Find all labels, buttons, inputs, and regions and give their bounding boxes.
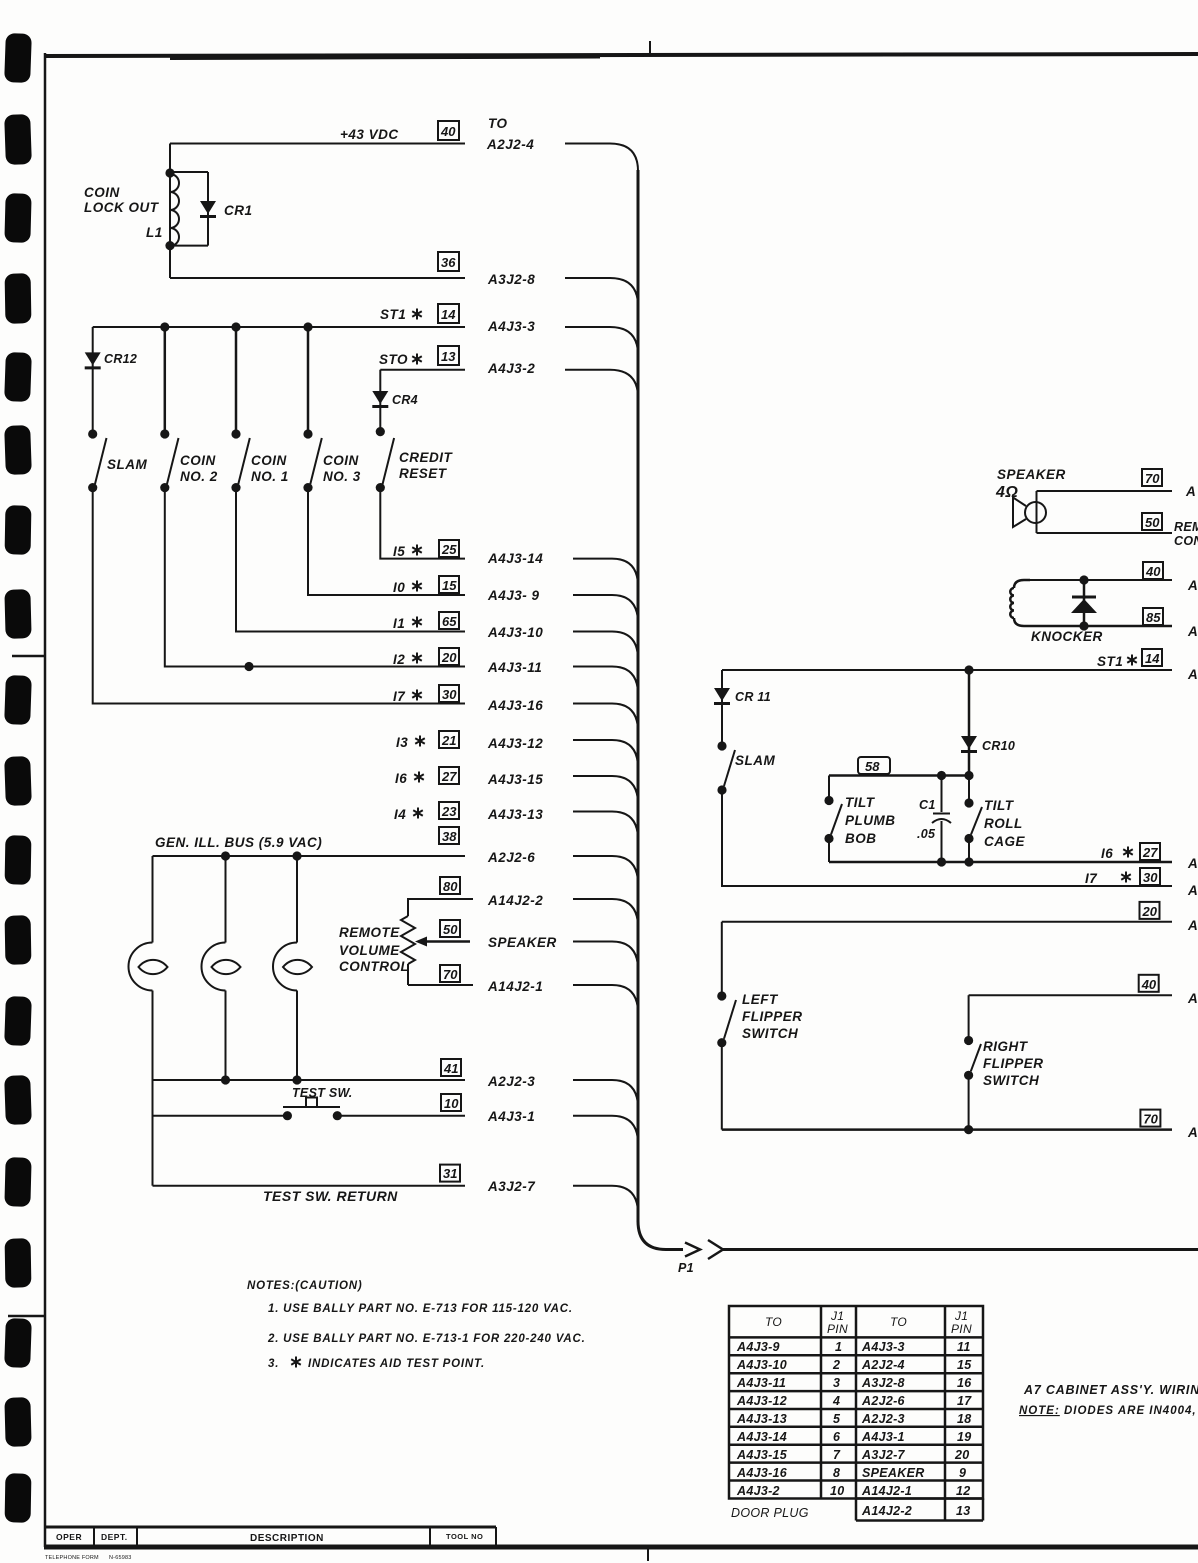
switch COIN NO.1 <box>231 429 288 492</box>
svg-text:A2J2-3: A2J2-3 <box>487 1074 535 1089</box>
svg-text:14: 14 <box>441 307 456 322</box>
svg-text:A4J3-14: A4J3-14 <box>487 551 543 566</box>
svg-text:4Ω: 4Ω <box>995 484 1018 501</box>
wire I4 to A4J3-13 <box>573 812 638 840</box>
svg-text:C1: C1 <box>919 798 936 812</box>
svg-text:A: A <box>1187 1125 1198 1140</box>
svg-text:NOTES:(CAUTION): NOTES:(CAUTION) <box>247 1280 363 1292</box>
svg-text:15: 15 <box>957 1358 972 1372</box>
svg-text:CREDIT: CREDIT <box>399 450 454 465</box>
svg-text:L1: L1 <box>146 225 163 240</box>
svg-text:19: 19 <box>957 1430 972 1444</box>
wire ST1 bus to A4J3-3 <box>93 327 638 355</box>
diode CR4 <box>379 370 381 432</box>
svg-text:20: 20 <box>954 1448 970 1462</box>
svg-text:A: A <box>1185 484 1196 499</box>
svg-text:NO. 1: NO. 1 <box>251 469 289 484</box>
svg-text:SPEAKER: SPEAKER <box>862 1466 925 1480</box>
lamp 3 <box>296 856 298 1080</box>
potentiometer remote volume control <box>401 916 415 985</box>
svg-text:23: 23 <box>441 804 457 819</box>
diode CR10 <box>968 670 971 776</box>
svg-text:A14J2-1: A14J2-1 <box>487 979 543 994</box>
svg-text:41: 41 <box>443 1061 458 1076</box>
svg-text:50: 50 <box>443 922 458 937</box>
svg-text:14: 14 <box>1145 651 1160 666</box>
svg-text:STO: STO <box>379 352 408 367</box>
svg-text:A3J2-7: A3J2-7 <box>861 1448 906 1462</box>
svg-text:BOB: BOB <box>845 831 877 846</box>
svg-text:I0: I0 <box>393 580 405 595</box>
svg-text:RESET: RESET <box>399 466 448 481</box>
svg-text:40: 40 <box>1145 564 1161 579</box>
svg-text:7: 7 <box>833 1448 841 1462</box>
svg-text:A4J3-15: A4J3-15 <box>736 1448 788 1462</box>
svg-text:70: 70 <box>1145 471 1160 486</box>
diode CR12 <box>92 327 94 434</box>
svg-text:J1: J1 <box>830 1309 844 1323</box>
svg-text:18: 18 <box>957 1412 972 1426</box>
svg-text:36: 36 <box>441 255 456 270</box>
wire TEST SW. RETURN to A3J2-7 <box>153 1186 639 1214</box>
svg-text:RIGHT: RIGHT <box>983 1039 1029 1054</box>
svg-text:A2J2-6: A2J2-6 <box>487 850 535 865</box>
wire STO to A4J3-2 <box>380 370 638 398</box>
wire tilt bottom bus I6 (27) A4J3-15 <box>829 861 1172 864</box>
svg-text:38: 38 <box>442 829 457 844</box>
svg-text:25: 25 <box>441 542 457 557</box>
table door plug pin-out <box>729 1306 983 1521</box>
svg-text:DESCRIPTION: DESCRIPTION <box>250 1533 324 1544</box>
svg-text:A2J2-4: A2J2-4 <box>861 1358 905 1372</box>
svg-text:TELEPHONE FORM: TELEPHONE FORM <box>45 1555 99 1561</box>
svg-text:A4J3-2: A4J3-2 <box>487 361 535 376</box>
svg-text:A4J3-16: A4J3-16 <box>736 1466 788 1480</box>
svg-text:A2J2-3: A2J2-3 <box>861 1412 905 1426</box>
svg-text:TEST SW.: TEST SW. <box>292 1086 353 1100</box>
svg-text:A7 CABINET ASS'Y. WIRING: A7 CABINET ASS'Y. WIRING <box>1023 1383 1198 1397</box>
wire I6 to A4J3-15 <box>573 776 638 804</box>
svg-text:3.: 3. <box>268 1358 279 1370</box>
svg-text:SWITCH: SWITCH <box>983 1073 1039 1088</box>
svg-text:A4J3-3: A4J3-3 <box>487 319 535 334</box>
wire I0 to A4J3-9 <box>308 488 638 623</box>
wire bundle to P1 <box>638 170 1198 1259</box>
wire flipper top (20) <box>722 921 1172 923</box>
svg-text:12: 12 <box>956 1484 971 1498</box>
svg-text:NO. 2: NO. 2 <box>180 469 218 484</box>
svg-text:A14J2-2: A14J2-2 <box>487 893 543 908</box>
svg-text:PIN: PIN <box>827 1322 848 1336</box>
svg-text:10: 10 <box>830 1484 845 1498</box>
svg-text:A: A <box>1187 918 1198 933</box>
svg-text:TOOL NO: TOOL NO <box>446 1532 483 1541</box>
svg-text:CR12: CR12 <box>104 352 137 366</box>
svg-text:40: 40 <box>440 124 456 139</box>
wire slam to I7 (30) A4J3-16 <box>722 790 1172 886</box>
svg-text:16: 16 <box>957 1376 972 1390</box>
svg-text:A3J2-7: A3J2-7 <box>487 1179 536 1194</box>
svg-text:A: A <box>1187 883 1198 898</box>
svg-text:SPEAKER: SPEAKER <box>488 935 557 950</box>
wire wiper to SPEAKER <box>415 937 638 970</box>
svg-text:A4J3-9: A4J3-9 <box>736 1340 780 1354</box>
svg-text:ST1: ST1 <box>1097 654 1123 669</box>
svg-text:DEPT.: DEPT. <box>101 1532 128 1542</box>
svg-text:A4J3-13: A4J3-13 <box>736 1412 787 1426</box>
svg-text:6: 6 <box>833 1430 841 1444</box>
lamp 2 <box>225 856 227 1080</box>
svg-text:A4J3- 9: A4J3- 9 <box>487 588 540 603</box>
switch COIN NO.2 <box>160 429 218 492</box>
switch SLAM (cabinet) <box>717 741 775 794</box>
svg-text:CR4: CR4 <box>392 393 418 407</box>
svg-text:LOCK OUT: LOCK OUT <box>84 200 160 215</box>
svg-text:2. USE BALLY PART NO. E-713-1: 2. USE BALLY PART NO. E-713-1 FOR 220-24… <box>267 1333 586 1345</box>
svg-text:I3: I3 <box>396 735 408 750</box>
svg-text:FLIPPER: FLIPPER <box>742 1009 803 1024</box>
svg-text:10: 10 <box>444 1096 459 1111</box>
wire I5 to A4J3-14 <box>380 488 638 587</box>
test switch TEST SW. to A4J3-1 <box>153 1098 639 1144</box>
wire speaker bottom (50) <box>1037 532 1173 534</box>
svg-text:70: 70 <box>443 967 458 982</box>
svg-text:SLAM: SLAM <box>735 753 776 768</box>
wire ST1 (14) right <box>722 669 1172 671</box>
svg-text:N-65983: N-65983 <box>109 1555 132 1561</box>
svg-text:20: 20 <box>1142 904 1158 919</box>
svg-text:I1: I1 <box>393 616 405 631</box>
wire GEN ILL BUS to A2J2-6 <box>153 856 639 884</box>
svg-text:13: 13 <box>441 349 456 364</box>
svg-text:2: 2 <box>832 1358 840 1372</box>
svg-text:GEN. ILL. BUS (5.9 VAC): GEN. ILL. BUS (5.9 VAC) <box>155 835 322 850</box>
svg-text:1. USE BALLY PART NO. E-713 FO: 1. USE BALLY PART NO. E-713 FOR 115-120 … <box>268 1303 573 1315</box>
switch tilt plumb bob <box>824 776 895 863</box>
svg-text:A3J2-8: A3J2-8 <box>487 272 535 287</box>
svg-text:3: 3 <box>833 1376 840 1390</box>
wire I7 to A4J3-16 <box>93 488 638 732</box>
svg-text:A4J3-10: A4J3-10 <box>736 1358 787 1372</box>
svg-text:4: 4 <box>832 1394 840 1408</box>
svg-text:65: 65 <box>442 614 457 629</box>
svg-text:CAGE: CAGE <box>984 834 1025 849</box>
svg-text:A4J3-11: A4J3-11 <box>487 660 542 675</box>
wire lamp return to A2J2-3 <box>153 1080 639 1108</box>
svg-text:TO: TO <box>890 1315 907 1329</box>
switch COIN NO.3 <box>303 429 360 492</box>
svg-text:TO: TO <box>488 116 508 131</box>
speaker 4 ohm <box>1013 491 1046 533</box>
svg-text:A4J3-1: A4J3-1 <box>861 1430 905 1444</box>
diode knocker (points up) <box>1083 580 1086 626</box>
wire I1 to A4J3-10 <box>236 488 638 660</box>
svg-text:PIN: PIN <box>951 1322 972 1336</box>
svg-text:CR 11: CR 11 <box>735 690 771 704</box>
wire to A14J2-1 <box>408 985 638 1013</box>
svg-text:85: 85 <box>1146 610 1161 625</box>
wire flipper bottom (70) <box>722 1128 1172 1131</box>
svg-text:INDICATES AID TEST POINT.: INDICATES AID TEST POINT. <box>308 1358 485 1370</box>
coil L1 coin lockout <box>170 172 179 246</box>
wire I3 to A4J3-12 <box>573 740 638 768</box>
switch right flipper <box>964 995 1044 1129</box>
wire left riser <box>152 1080 154 1186</box>
svg-text:A3J2-8: A3J2-8 <box>861 1376 905 1390</box>
switch CREDIT RESET <box>376 427 454 492</box>
wire +43 VDC to A2J2-4 <box>170 144 638 173</box>
svg-text:.05: .05 <box>917 827 936 841</box>
svg-text:SLAM: SLAM <box>107 457 148 472</box>
svg-text:CON: CON <box>1174 534 1198 548</box>
svg-text:20: 20 <box>441 650 457 665</box>
svg-text:I2: I2 <box>393 652 405 667</box>
svg-text:A4J3-15: A4J3-15 <box>487 772 543 787</box>
wire knocker top (40) <box>1030 579 1172 581</box>
diode CR1 <box>170 172 208 246</box>
svg-text:COIN: COIN <box>323 453 359 468</box>
svg-text:LEFT: LEFT <box>742 992 779 1007</box>
svg-text:31: 31 <box>443 1166 457 1181</box>
svg-text:COIN: COIN <box>180 453 216 468</box>
svg-text:A4J3-2: A4J3-2 <box>736 1484 780 1498</box>
svg-text:P1: P1 <box>678 1261 694 1275</box>
coil knocker <box>1010 580 1030 626</box>
svg-text:I7: I7 <box>1085 871 1098 886</box>
switch left flipper <box>717 922 802 1130</box>
svg-text:21: 21 <box>441 733 456 748</box>
svg-text:CONTROL: CONTROL <box>339 959 409 974</box>
wire to A14J2-2 <box>408 899 638 927</box>
svg-text:A4J3-14: A4J3-14 <box>736 1430 787 1444</box>
wire right flipper feed (40) <box>969 994 1172 996</box>
svg-text:SWITCH: SWITCH <box>742 1026 798 1041</box>
svg-text:A: A <box>1187 624 1198 639</box>
svg-text:REM: REM <box>1174 520 1198 534</box>
svg-text:I6: I6 <box>395 771 407 786</box>
svg-text:A4J3-16: A4J3-16 <box>487 698 543 713</box>
svg-text:5: 5 <box>833 1412 841 1426</box>
svg-text:NO. 3: NO. 3 <box>323 469 361 484</box>
svg-text:CR10: CR10 <box>982 739 1015 753</box>
svg-text:+43 VDC: +43 VDC <box>340 127 399 142</box>
svg-text:TEST SW. RETURN: TEST SW. RETURN <box>263 1188 398 1204</box>
svg-text:REMOTE: REMOTE <box>339 925 400 940</box>
svg-text:A4J3-11: A4J3-11 <box>736 1376 786 1390</box>
svg-text:TILT: TILT <box>984 798 1015 813</box>
wire I2 to A4J3-11 <box>165 488 638 695</box>
svg-text:A4J3-10: A4J3-10 <box>487 625 543 640</box>
svg-text:I6: I6 <box>1101 846 1113 861</box>
svg-text:70: 70 <box>1143 1112 1158 1127</box>
switch tilt roll cage <box>964 776 1025 863</box>
capacitor C1 .05 <box>917 776 951 863</box>
svg-text:17: 17 <box>957 1394 972 1408</box>
svg-text:ROLL: ROLL <box>984 816 1023 831</box>
svg-text:27: 27 <box>441 769 457 784</box>
svg-text:A: A <box>1187 856 1198 871</box>
wire tilt top bus with badge 58 <box>829 774 969 777</box>
svg-text:COIN: COIN <box>251 453 287 468</box>
svg-text:I7: I7 <box>393 689 406 704</box>
svg-text:SPEAKER: SPEAKER <box>997 467 1066 482</box>
svg-text:80: 80 <box>443 879 458 894</box>
svg-text:A2J2-6: A2J2-6 <box>861 1394 906 1408</box>
svg-text:A14J2-2: A14J2-2 <box>861 1504 912 1518</box>
svg-text:A: A <box>1187 667 1198 682</box>
svg-text:I4: I4 <box>394 807 406 822</box>
svg-text:DOOR PLUG: DOOR PLUG <box>731 1506 809 1520</box>
svg-text:A4J3-12: A4J3-12 <box>487 736 543 751</box>
svg-text:13: 13 <box>956 1504 971 1518</box>
switch SLAM <box>88 429 147 492</box>
lamp 1 <box>152 856 154 1080</box>
svg-text:30: 30 <box>442 687 457 702</box>
svg-text:9: 9 <box>959 1466 966 1480</box>
svg-text:A4J3-12: A4J3-12 <box>736 1394 787 1408</box>
svg-text:A14J2-1: A14J2-1 <box>861 1484 912 1498</box>
svg-text:NOTE: DIODES ARE IN4004,: NOTE: DIODES ARE IN4004, <box>1019 1405 1197 1417</box>
svg-text:11: 11 <box>957 1340 971 1354</box>
svg-text:TILT: TILT <box>845 795 876 810</box>
svg-text:40: 40 <box>1141 977 1157 992</box>
svg-text:30: 30 <box>1143 870 1158 885</box>
svg-text:FLIPPER: FLIPPER <box>983 1056 1044 1071</box>
svg-text:1: 1 <box>835 1340 842 1354</box>
svg-text:CR1: CR1 <box>224 203 253 218</box>
svg-text:ST1: ST1 <box>380 307 406 322</box>
svg-text:27: 27 <box>1142 845 1158 860</box>
wire knocker bottom (85) <box>1030 625 1172 628</box>
svg-text:J1: J1 <box>954 1309 968 1323</box>
svg-text:A4J3-13: A4J3-13 <box>487 807 543 822</box>
svg-text:TO: TO <box>765 1315 782 1329</box>
svg-text:A: A <box>1187 578 1198 593</box>
diode CR11 <box>721 670 723 746</box>
wire A3J2-8 <box>170 246 638 306</box>
svg-text:A4J3-3: A4J3-3 <box>861 1340 905 1354</box>
svg-text:KNOCKER: KNOCKER <box>1031 629 1103 644</box>
svg-text:COIN: COIN <box>84 185 120 200</box>
svg-text:PLUMB: PLUMB <box>845 813 896 828</box>
svg-text:A2J2-4: A2J2-4 <box>486 137 534 152</box>
svg-text:OPER: OPER <box>56 1532 82 1542</box>
svg-text:8: 8 <box>833 1466 840 1480</box>
svg-text:A: A <box>1187 991 1198 1006</box>
svg-text:A4J3-1: A4J3-1 <box>487 1109 535 1124</box>
wire speaker top (70) <box>1037 490 1173 492</box>
svg-text:VOLUME: VOLUME <box>339 943 400 958</box>
svg-text:15: 15 <box>442 578 457 593</box>
svg-text:58: 58 <box>865 759 880 774</box>
svg-text:50: 50 <box>1145 515 1160 530</box>
svg-text:I5: I5 <box>393 544 405 559</box>
coin switch drop wires <box>165 327 308 434</box>
